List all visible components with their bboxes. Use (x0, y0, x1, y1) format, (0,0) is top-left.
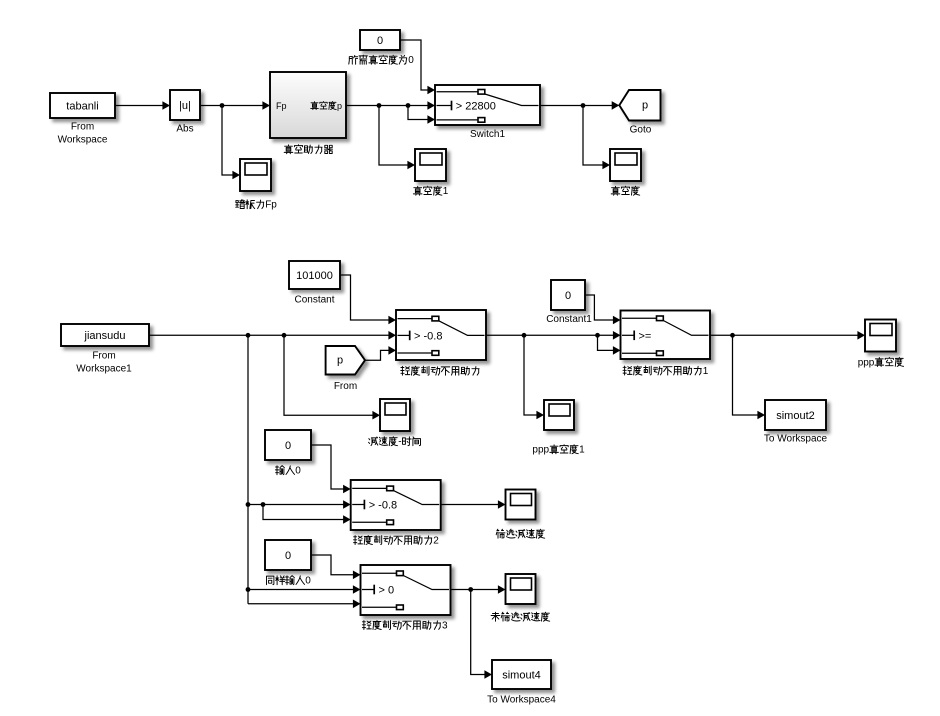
wire tabanli to Abs (115, 101, 170, 110)
wire subsystem to Switch1 in2, junctions (346, 101, 435, 110)
scope 筛选减速度 (506, 490, 536, 520)
scope 未筛选减速度 (506, 574, 536, 604)
wire constant0 to Switch1 in1 (400, 40, 435, 94)
svg-text:Abs: Abs (176, 124, 193, 135)
svg-text:Constant: Constant (294, 295, 334, 306)
svg-text:Switch1: Switch1 (470, 129, 505, 140)
wire Constant1 to switch B in1 (585, 295, 621, 324)
svg-text:To Workspace: To Workspace (764, 434, 828, 445)
svg-text:1: 1 (443, 186, 449, 197)
svg-text:0: 0 (377, 35, 383, 47)
svg-text:To Workspace4: To Workspace4 (487, 695, 556, 706)
switch 轻度制动不用助力 (396, 310, 486, 360)
svg-text:simout4: simout4 (502, 670, 541, 682)
svg-text:0: 0 (565, 290, 571, 302)
wire branch to scope 真空度1 (379, 106, 415, 170)
svg-text:0: 0 (285, 440, 291, 452)
wire switch2 to scope 筛选减速度 (441, 500, 506, 509)
wire to switch3 in2 (248, 585, 361, 594)
wire branch down to scope 踏板力Fp (222, 106, 240, 180)
wire to switch3 in3 (248, 600, 361, 609)
wire branch to scope 真空度 (583, 106, 610, 170)
svg-text:0: 0 (285, 550, 291, 562)
svg-text:Workspace1: Workspace1 (76, 364, 132, 375)
constant 0 (输入0) (265, 430, 311, 460)
block Abs (170, 90, 200, 120)
subsystem 真空助力器 (0, 0, 1, 1)
wire jiansudu main, junctions (149, 331, 396, 340)
wire branch to scope ppp真空度1 (524, 335, 544, 419)
wire branch to switch2 in3 (263, 505, 351, 524)
svg-text:Fp: Fp (276, 101, 287, 111)
svg-text:> 22800: > 22800 (456, 101, 496, 113)
from tag p (From) (326, 346, 365, 375)
goto tag p (Goto) (619, 90, 660, 121)
svg-text:tabanli: tabanli (66, 101, 98, 113)
svg-text:Fp: Fp (265, 200, 277, 211)
svg-text:simout2: simout2 (776, 410, 815, 422)
wire From tag to switch in3 (365, 346, 396, 360)
svg-text:0: 0 (408, 55, 414, 66)
wire branch to Switch1 in3 (408, 106, 435, 124)
svg-text:p: p (337, 355, 343, 367)
wire branch to simout4 (471, 590, 492, 679)
block jiansudu (From Workspace1) (61, 324, 149, 346)
scope 真空度1 (415, 149, 446, 181)
svg-text:p: p (337, 101, 342, 111)
svg-text:> 0: > 0 (379, 585, 395, 597)
wire long vertical from jiansudu junction (246, 335, 251, 604)
svg-text:101000: 101000 (296, 270, 333, 282)
wire branch to scope 减速度-时间 (284, 335, 380, 419)
svg-text:0: 0 (305, 576, 311, 587)
svg-text:-: - (398, 437, 401, 448)
scope ppp真空度 (865, 320, 896, 352)
constant 0 (Constant1) (551, 280, 585, 310)
wire Constant to switch 轻度制动不用助力 in1 (340, 275, 396, 324)
scope 踏板力Fp (240, 159, 271, 191)
svg-text:Goto: Goto (630, 125, 652, 136)
svg-text:Workspace: Workspace (58, 135, 108, 146)
svg-text:>=: >= (639, 330, 652, 342)
switch 轻度制动不用助力2 (351, 480, 441, 530)
svg-text:From: From (334, 381, 357, 392)
scope 减速度-时间 (380, 399, 410, 431)
constant 101000 (Constant) (289, 261, 340, 289)
wire 输入0 to switch2 in1 (311, 445, 351, 493)
svg-text:ppp: ppp (858, 357, 875, 368)
wire Switch1 to Goto, junction (540, 101, 619, 110)
switch 轻度制动不用助力3 (361, 565, 451, 615)
svg-text:|u|: |u| (179, 100, 191, 112)
svg-text:0: 0 (295, 466, 301, 477)
svg-text:1: 1 (703, 366, 709, 377)
svg-text:From: From (92, 351, 115, 362)
wire 同样输入0 to switch3 in1 (311, 555, 361, 579)
constant 0 (同样输入0) (265, 540, 311, 570)
scope 真空度 (610, 149, 641, 181)
wire switch A output to switch B in2, junctions (486, 331, 621, 340)
switch Switch1 (435, 85, 540, 125)
svg-text:Constant1: Constant1 (546, 314, 592, 325)
svg-text:1: 1 (579, 445, 585, 456)
svg-text:2: 2 (433, 535, 439, 546)
svg-text:p: p (642, 100, 648, 112)
wire switch3 to scope 未筛选减速度, junction (451, 585, 506, 594)
scope ppp真空度1 (544, 400, 574, 430)
constant 0 (所需真空度为0) (360, 30, 400, 50)
wire branch to simout2 (733, 335, 766, 419)
wire switch B to scope ppp真空度, junction (710, 331, 865, 340)
svg-text:> -0.8: > -0.8 (414, 330, 442, 342)
svg-text:3: 3 (442, 620, 448, 631)
svg-text:From: From (71, 122, 94, 133)
wire branch to switch B in3 (598, 335, 621, 354)
block simout2 (To Workspace) (765, 400, 826, 430)
switch 轻度制动不用助力1 (621, 311, 711, 360)
wire Abs to subsystem, junction (200, 101, 270, 110)
block tabanli (From Workspace) (50, 93, 115, 118)
svg-text:ppp: ppp (532, 445, 549, 456)
block simout4 (To Workspace4) (492, 660, 551, 689)
svg-text:jiansudu: jiansudu (84, 330, 126, 342)
svg-text:> -0.8: > -0.8 (369, 500, 397, 512)
wire to switch2 in2, junction (248, 500, 351, 509)
